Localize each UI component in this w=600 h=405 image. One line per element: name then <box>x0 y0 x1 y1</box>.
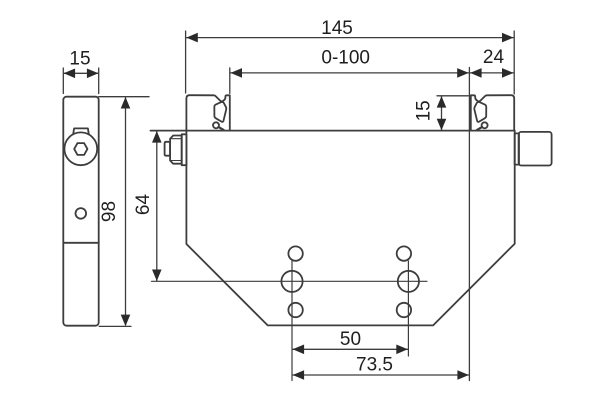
svg-text:73.5: 73.5 <box>356 355 393 376</box>
right jaw pivot circle <box>482 122 488 128</box>
left clamp nut flange <box>182 134 187 165</box>
main body top surface line <box>151 130 515 132</box>
svg-text:145: 145 <box>321 18 353 39</box>
small hole side view <box>76 208 87 219</box>
hex socket <box>74 143 87 155</box>
dim 145 / 24 right extension <box>513 31 515 94</box>
left jaw <box>186 95 229 130</box>
hole big right <box>398 271 419 292</box>
dim 0-100 right arrowhead <box>457 68 469 78</box>
dim 50 right arrowhead <box>396 345 408 355</box>
side view body <box>63 97 98 326</box>
dim 145 left arrowhead <box>186 33 198 43</box>
left jaw tangent line <box>219 127 224 130</box>
dim 73.5 line <box>293 374 469 376</box>
vertical centerline left holes <box>291 261 293 381</box>
left clamp nut body <box>170 136 182 164</box>
dim 15 right arrowhead <box>87 69 99 79</box>
left jaw slot <box>214 102 226 122</box>
hole top right <box>397 246 411 260</box>
left jaw pivot circle <box>213 122 219 128</box>
left clamp screw tip <box>165 142 171 156</box>
dim 145 left extension <box>185 31 187 93</box>
dim 64 down arrowhead <box>152 270 162 282</box>
right jaw <box>471 95 514 130</box>
main body outline <box>186 131 514 326</box>
long extension line 0-100/24/73.5 <box>468 68 470 381</box>
dim 64 line <box>156 132 158 281</box>
right knob neck <box>515 133 519 164</box>
dim 24 line <box>470 72 513 74</box>
dim 50 line <box>293 348 408 350</box>
dim 98 line <box>125 98 127 325</box>
dim 98 bottom arrowhead <box>121 315 131 327</box>
dim 0-100 left arrowhead <box>231 68 243 78</box>
svg-text:64: 64 <box>133 194 154 216</box>
side view top extension line for 98 <box>99 96 149 98</box>
dim 15 right down arrowhead <box>437 119 447 131</box>
dim 73.5 right arrowhead <box>457 370 469 380</box>
side view bottom extension line for 98 <box>99 325 131 327</box>
dim 98 top arrowhead <box>121 97 131 109</box>
svg-text:50: 50 <box>340 329 361 350</box>
dim 24 left arrowhead <box>470 68 482 78</box>
hole bottom left <box>288 303 302 317</box>
svg-text:98: 98 <box>99 201 120 222</box>
dim 73.5 left arrowhead <box>293 370 305 380</box>
right knob <box>519 132 552 166</box>
dim 0-100 line <box>231 72 469 74</box>
left clamp nut facet top <box>170 138 182 140</box>
clamp screw circle <box>64 132 97 165</box>
dim 145 right arrowhead <box>502 33 514 43</box>
left clamp nut facet bottom <box>170 160 182 162</box>
svg-text:15: 15 <box>69 49 90 70</box>
vertical centerline right holes <box>407 261 409 356</box>
dim 15 left arrowhead <box>64 69 76 79</box>
dim 15 line <box>64 72 98 74</box>
dim 15 right top extension <box>437 95 468 97</box>
right jaw tangent line <box>477 127 482 130</box>
svg-text:24: 24 <box>483 47 505 68</box>
clamp screw tab <box>73 128 89 134</box>
hole big left <box>281 271 302 292</box>
dim 15 right line <box>441 97 443 130</box>
dim 145 line <box>186 37 513 39</box>
dim 0-100 left extension <box>229 68 231 94</box>
dim 15 left extension <box>62 68 64 94</box>
dim 15 right up arrowhead <box>437 96 447 108</box>
svg-text:15: 15 <box>414 100 435 121</box>
svg-text:0-100: 0-100 <box>321 47 370 68</box>
hole top left <box>288 246 302 260</box>
dim 24 right arrowhead <box>502 68 514 78</box>
horizontal centerline through big holes <box>152 280 428 282</box>
dim 50 left arrowhead <box>293 345 305 355</box>
dim 64 up arrowhead <box>152 131 162 143</box>
side view divider line <box>63 242 98 244</box>
hole bottom right <box>397 303 411 317</box>
right jaw slot <box>474 102 486 122</box>
dim 15 right extension <box>98 68 100 94</box>
